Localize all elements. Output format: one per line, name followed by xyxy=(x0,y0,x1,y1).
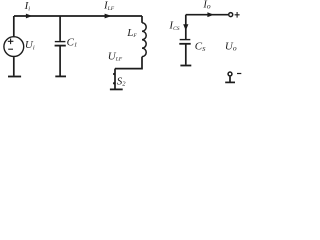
wire: source bottom lead xyxy=(13,57,15,76)
capacitor CS top plate xyxy=(180,39,191,41)
svg-text:ULF: ULF xyxy=(108,50,123,62)
voltage source Ui circle xyxy=(4,37,24,57)
wire: CS bottom lead xyxy=(185,44,187,64)
terminal bar below source xyxy=(8,76,21,78)
output terminal circle minus side xyxy=(228,72,232,76)
voltage source plus mark xyxy=(8,39,14,45)
terminal bar below CS xyxy=(180,65,191,67)
capacitor CS bottom plate xyxy=(179,43,190,45)
wire: source top lead xyxy=(13,16,15,36)
svg-text:C1: C1 xyxy=(67,36,78,48)
current arrow Ii on top rail xyxy=(26,14,32,19)
terminal bar below S2 xyxy=(110,88,123,90)
svg-text:LF: LF xyxy=(126,27,137,39)
wire: LF bottom lead down and step left xyxy=(115,57,142,69)
terminal bar below minus terminal xyxy=(225,81,235,83)
inductor LF coil xyxy=(142,23,146,57)
switch S2 contact dots xyxy=(113,73,115,75)
minus sign at output xyxy=(237,73,241,75)
wire: right circuit top rail xyxy=(186,14,228,16)
wire: C1 bottom lead xyxy=(59,46,61,76)
svg-text:S2: S2 xyxy=(117,75,127,87)
svg-text:CS: CS xyxy=(195,41,206,53)
capacitor C1 top plate xyxy=(55,41,66,43)
current arrow ICS pointing down xyxy=(183,24,188,30)
svg-text:ICS: ICS xyxy=(168,20,179,32)
plus sign at output xyxy=(235,12,240,18)
wire: minus terminal stem xyxy=(229,77,231,82)
svg-text:Ui: Ui xyxy=(25,39,35,51)
svg-text:Uo: Uo xyxy=(225,41,237,53)
svg-text:ILF: ILF xyxy=(103,0,115,12)
terminal bar below C1 xyxy=(55,75,66,77)
svg-text:Ii: Ii xyxy=(24,0,31,12)
wire: left top rail from source to LF corner xyxy=(14,15,142,17)
current arrow Io xyxy=(207,12,214,17)
wire: LF top lead (corner down from rail) xyxy=(141,16,143,23)
wire: CS top lead xyxy=(185,15,187,39)
current arrow ILF on top rail xyxy=(105,14,112,19)
output terminal circle plus side xyxy=(229,13,233,17)
wire: C1 top lead from rail junction xyxy=(59,16,61,41)
capacitor C1 bottom plate xyxy=(55,45,66,47)
svg-text:Io: Io xyxy=(202,0,211,10)
wire: S2 branch vertical xyxy=(114,69,116,89)
voltage source minus mark xyxy=(8,48,13,50)
